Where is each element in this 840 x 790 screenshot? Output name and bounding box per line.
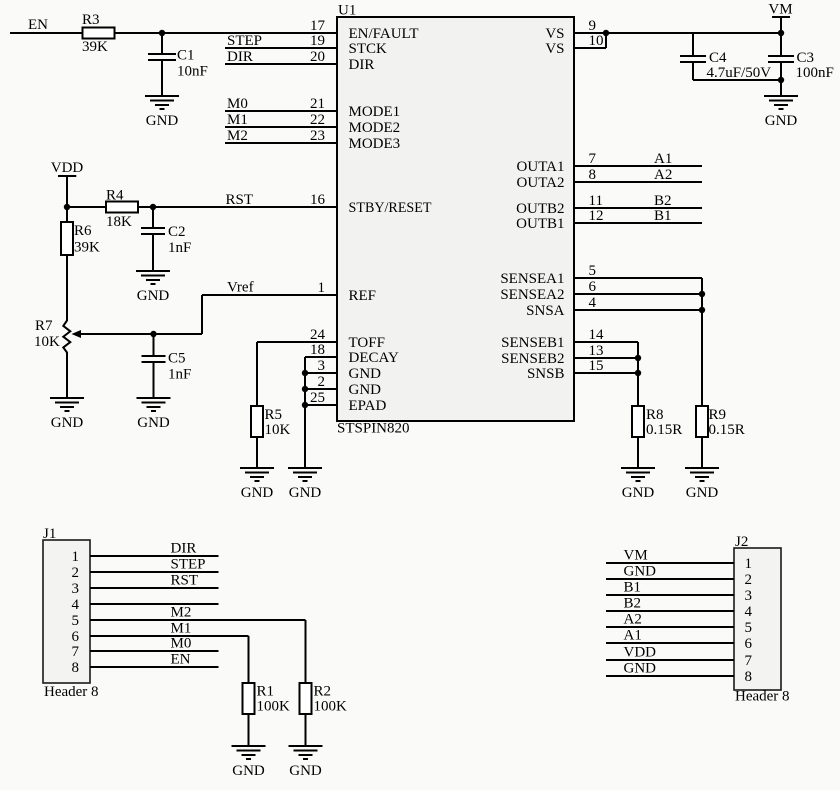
svg-text:R3: R3 — [82, 12, 100, 28]
node EN label — [28, 17, 48, 33]
svg-text:VM: VM — [768, 1, 792, 17]
svg-text:6: 6 — [72, 629, 80, 645]
svg-text:C5: C5 — [168, 351, 186, 367]
svg-text:7: 7 — [589, 151, 597, 167]
svg-text:9: 9 — [589, 18, 597, 34]
svg-text:J2: J2 — [735, 534, 748, 550]
wire SNSB — [574, 372, 638, 374]
svg-text:M0: M0 — [171, 636, 192, 652]
svg-text:STSPIN820: STSPIN820 — [337, 421, 410, 437]
resistor R5 — [251, 406, 291, 438]
svg-text:39K: 39K — [74, 240, 100, 256]
svg-text:Header 8: Header 8 — [44, 684, 99, 700]
svg-text:GND: GND — [686, 485, 719, 501]
svg-text:DECAY: DECAY — [349, 350, 399, 366]
svg-text:10nF: 10nF — [177, 64, 208, 80]
wire DIR net — [225, 49, 337, 65]
wire R7 to ground — [66, 352, 68, 398]
svg-text:B1: B1 — [624, 580, 642, 596]
wire C4 bottom — [693, 62, 781, 80]
wire J1 pin 6 M1 — [90, 621, 249, 684]
svg-text:STEP: STEP — [171, 557, 206, 573]
wire U1 GND pin 2 — [305, 388, 337, 390]
svg-text:U1: U1 — [338, 3, 356, 19]
svg-text:2: 2 — [72, 565, 80, 581]
wire R1 to ground — [248, 714, 250, 746]
wire EN to R3 — [10, 32, 83, 34]
junction SNSB — [635, 370, 641, 376]
junction SENSEB2 — [635, 355, 641, 361]
svg-text:1nF: 1nF — [168, 367, 191, 383]
junction SNSA — [699, 307, 705, 313]
svg-text:3: 3 — [745, 588, 753, 604]
wire R6 to R7 — [66, 255, 68, 321]
svg-text:RST: RST — [171, 573, 199, 589]
wire STEP net — [225, 33, 337, 49]
wire VDD node to R6 — [66, 207, 68, 222]
svg-text:M1: M1 — [227, 112, 248, 128]
svg-text:M0: M0 — [227, 96, 248, 112]
svg-text:100K: 100K — [314, 699, 348, 715]
svg-text:OUTA1: OUTA1 — [517, 159, 565, 175]
svg-text:10: 10 — [589, 33, 604, 49]
svg-text:A2: A2 — [654, 167, 672, 183]
svg-text:1: 1 — [72, 549, 80, 565]
svg-text:OUTA2: OUTA2 — [517, 175, 565, 191]
svg-text:GND: GND — [232, 763, 265, 779]
wire J1 pin 4 — [90, 603, 219, 605]
resistor R1 — [243, 683, 291, 715]
svg-text:A1: A1 — [654, 151, 672, 167]
capacitor C3 — [768, 50, 834, 81]
svg-text:R1: R1 — [257, 684, 275, 700]
U1 left pin numbers — [310, 18, 326, 406]
svg-text:GND: GND — [289, 485, 322, 501]
ground below R1 — [232, 746, 266, 779]
svg-text:7: 7 — [745, 653, 753, 669]
connector J2 body — [734, 534, 790, 705]
svg-text:100nF: 100nF — [796, 65, 834, 81]
svg-text:GND: GND — [624, 661, 657, 677]
junction pin 3 — [302, 370, 308, 376]
wire VS to VM — [606, 32, 781, 34]
U1 right pin numbers — [589, 18, 605, 374]
wire U1 TOFF to R5 — [257, 342, 337, 406]
svg-text:C3: C3 — [797, 50, 815, 66]
svg-text:DIR: DIR — [227, 49, 253, 65]
svg-text:4: 4 — [589, 295, 597, 311]
svg-text:STBY/RESET: STBY/RESET — [349, 200, 432, 216]
wire J2 pin 4 B2 — [606, 596, 734, 612]
capacitor C2 — [141, 224, 191, 256]
junction pin 2 — [302, 386, 308, 392]
wire J1 pin 8 EN — [90, 652, 219, 668]
svg-text:20: 20 — [310, 49, 325, 65]
svg-text:SENSEA1: SENSEA1 — [500, 271, 564, 287]
svg-text:EN: EN — [171, 652, 191, 668]
svg-text:8: 8 — [72, 660, 80, 676]
svg-text:R9: R9 — [709, 407, 727, 423]
svg-text:39K: 39K — [82, 39, 108, 55]
J2 pin numbers — [745, 556, 753, 685]
svg-text:18: 18 — [310, 342, 325, 358]
wire junction to C1 — [161, 33, 163, 54]
svg-text:0.15R: 0.15R — [646, 422, 682, 438]
svg-text:GND: GND — [622, 485, 655, 501]
svg-text:100K: 100K — [257, 699, 291, 715]
wire J2 pin 6 A1 — [606, 628, 734, 644]
junction VS — [603, 30, 609, 36]
junction at C1 tap — [159, 30, 165, 36]
wire SENSEB1 — [574, 342, 638, 406]
svg-text:REF: REF — [349, 288, 377, 304]
svg-text:15: 15 — [589, 358, 604, 374]
svg-text:R7: R7 — [35, 318, 53, 334]
wire J1 pin 1 DIR — [90, 541, 219, 557]
svg-text:5: 5 — [72, 613, 80, 629]
U1 right pin names — [500, 26, 564, 382]
wire VDD to R4 — [67, 206, 106, 208]
wire U1 EPAD pin 25 — [305, 404, 337, 406]
resistor R3 — [82, 12, 115, 55]
op-amp U1 STSPIN820 body — [337, 3, 574, 437]
wire J2 pin 2 GND — [606, 564, 734, 580]
svg-text:GND: GND — [137, 288, 170, 304]
wire OUTA1 net A1 — [574, 151, 702, 167]
svg-text:R4: R4 — [106, 188, 124, 204]
wire VM node to C4 — [692, 33, 694, 56]
svg-text:A2: A2 — [624, 612, 642, 628]
wire C1 to ground — [161, 60, 163, 96]
svg-text:M2: M2 — [227, 128, 248, 144]
wire SENSEB2 — [574, 357, 638, 359]
wire J1 pin 3 RST — [90, 573, 219, 589]
svg-text:M1: M1 — [171, 621, 192, 637]
svg-text:EPAD: EPAD — [349, 398, 387, 414]
svg-text:C2: C2 — [168, 224, 186, 240]
svg-text:GND: GND — [137, 415, 170, 431]
junction SENSEA2 — [699, 291, 705, 297]
svg-text:2: 2 — [318, 374, 326, 390]
svg-text:MODE2: MODE2 — [349, 120, 401, 136]
svg-text:R2: R2 — [314, 684, 332, 700]
ground below R9 — [685, 468, 719, 501]
node Vref label — [227, 280, 254, 296]
svg-text:GND: GND — [289, 763, 322, 779]
wire OUTB1 net B1 — [574, 208, 702, 224]
svg-text:SNSB: SNSB — [527, 366, 565, 382]
svg-text:25: 25 — [310, 390, 325, 406]
svg-text:GND: GND — [624, 564, 657, 580]
svg-text:GND: GND — [765, 113, 798, 129]
wire R7 wiper to Vref — [79, 333, 202, 335]
wire M1 net — [225, 112, 337, 128]
svg-text:Vref: Vref — [227, 280, 254, 296]
U1 left pin names — [349, 26, 432, 414]
resistor R2 — [300, 683, 348, 715]
svg-text:13: 13 — [589, 343, 604, 359]
svg-text:23: 23 — [310, 128, 325, 144]
svg-text:OUTB1: OUTB1 — [516, 216, 564, 232]
svg-text:1: 1 — [745, 556, 753, 572]
junction at C2 tap — [150, 204, 156, 210]
resistor R8 — [632, 406, 682, 438]
wire junction to C2 — [152, 207, 154, 228]
svg-text:SENSEB2: SENSEB2 — [501, 351, 564, 367]
svg-text:M2: M2 — [171, 605, 192, 621]
svg-text:GND: GND — [146, 113, 179, 129]
ground below R5 — [240, 468, 274, 501]
ground below R8 — [621, 468, 655, 501]
power VM symbol — [768, 1, 792, 33]
svg-text:STCK: STCK — [349, 41, 388, 57]
wire J2 pin 5 A2 — [606, 612, 734, 628]
wire R9 to ground — [701, 437, 703, 468]
svg-text:A1: A1 — [624, 628, 642, 644]
svg-text:22: 22 — [310, 112, 325, 128]
svg-text:4.7uF/50V: 4.7uF/50V — [707, 65, 772, 81]
svg-text:OUTB2: OUTB2 — [516, 201, 564, 217]
svg-text:B2: B2 — [654, 193, 672, 209]
resistor R9 — [696, 406, 745, 438]
svg-text:C1: C1 — [177, 48, 195, 64]
svg-text:SNSA: SNSA — [526, 303, 565, 319]
junction VDD node — [64, 204, 70, 210]
wire J2 pin 3 B1 — [606, 580, 734, 596]
wire OUTA2 net A2 — [574, 167, 702, 183]
wire OUTB2 net B2 — [574, 193, 702, 209]
wire J1 pin 5 M2 — [90, 605, 306, 684]
wire SENSEA1 — [574, 278, 702, 406]
svg-text:7: 7 — [72, 644, 80, 660]
svg-text:10K: 10K — [265, 422, 291, 438]
wire R2 to ground — [305, 714, 307, 746]
ground below DECAY chain — [288, 468, 322, 501]
potentiometer R7 — [34, 318, 81, 353]
svg-text:GND: GND — [349, 366, 382, 382]
wire U1 GND pin 3 — [305, 372, 337, 374]
svg-text:GND: GND — [241, 485, 274, 501]
svg-text:24: 24 — [310, 327, 326, 343]
wire R5 to ground — [256, 437, 258, 468]
svg-text:R5: R5 — [265, 407, 283, 423]
ground below C1 — [145, 96, 179, 129]
svg-text:16: 16 — [310, 192, 326, 208]
wire Vref riser — [202, 295, 337, 334]
wire SNSA — [574, 309, 702, 311]
svg-text:1nF: 1nF — [168, 240, 191, 256]
wire VS pin 9 — [574, 32, 606, 34]
svg-text:4: 4 — [745, 604, 753, 620]
svg-text:12: 12 — [589, 208, 604, 224]
svg-text:SENSEA2: SENSEA2 — [500, 287, 564, 303]
svg-text:6: 6 — [589, 279, 597, 295]
ground below C2 — [136, 271, 170, 304]
capacitor C4 — [680, 50, 771, 81]
wire junction to C5 — [153, 334, 155, 356]
svg-text:DIR: DIR — [171, 541, 197, 557]
svg-text:R6: R6 — [74, 223, 92, 239]
J1 pin numbers — [72, 549, 80, 676]
svg-text:TOFF: TOFF — [349, 335, 385, 351]
svg-text:0.15R: 0.15R — [709, 422, 745, 438]
svg-text:EN/FAULT: EN/FAULT — [349, 26, 419, 42]
svg-text:19: 19 — [310, 33, 325, 49]
svg-text:MODE1: MODE1 — [349, 104, 401, 120]
svg-text:18K: 18K — [106, 214, 132, 230]
svg-text:MODE3: MODE3 — [349, 136, 401, 152]
svg-text:5: 5 — [745, 620, 753, 636]
junction at C5 tap — [150, 331, 156, 337]
svg-text:B1: B1 — [654, 208, 672, 224]
power VDD symbol — [51, 160, 84, 207]
svg-text:J1: J1 — [43, 526, 56, 542]
svg-text:RST: RST — [226, 192, 254, 208]
junction C4-C3 bottom — [778, 77, 784, 83]
svg-text:4: 4 — [72, 597, 80, 613]
wire J1 pin 2 STEP — [90, 557, 219, 573]
capacitor C1 — [148, 48, 208, 80]
wire C3 to ground — [780, 62, 782, 96]
svg-text:VDD: VDD — [624, 645, 657, 661]
svg-text:3: 3 — [318, 358, 326, 374]
svg-text:STEP: STEP — [227, 33, 262, 49]
svg-text:EN: EN — [28, 17, 48, 33]
svg-text:VS: VS — [545, 26, 564, 42]
wire VM node to C3 — [780, 33, 782, 56]
svg-text:6: 6 — [745, 636, 753, 652]
svg-text:Header 8: Header 8 — [735, 689, 790, 705]
wire M2 net — [225, 128, 337, 144]
svg-text:VM: VM — [624, 548, 648, 564]
svg-text:8: 8 — [589, 167, 597, 183]
svg-text:SENSEB1: SENSEB1 — [501, 335, 564, 351]
svg-text:DIR: DIR — [349, 57, 375, 73]
junction VM node — [778, 30, 784, 36]
svg-text:1: 1 — [318, 280, 326, 296]
wire R3 to U1 pin 17 — [115, 32, 338, 34]
junction pin 25 — [302, 402, 308, 408]
ground below R7 — [50, 398, 84, 431]
svg-text:21: 21 — [310, 96, 325, 112]
svg-text:R8: R8 — [646, 407, 664, 423]
capacitor C5 — [142, 351, 192, 383]
svg-text:2: 2 — [745, 572, 753, 588]
wire J1 pin 7 M0 — [90, 636, 219, 652]
ground below R2 — [289, 746, 323, 779]
resistor R6 — [61, 222, 100, 256]
svg-text:GND: GND — [51, 415, 84, 431]
svg-text:VS: VS — [545, 41, 564, 57]
ground below C3 — [764, 96, 798, 129]
svg-text:5: 5 — [589, 263, 597, 279]
resistor R4 — [106, 188, 138, 231]
svg-text:VDD: VDD — [51, 160, 84, 176]
svg-text:8: 8 — [745, 669, 753, 685]
svg-text:11: 11 — [589, 193, 603, 209]
svg-text:10K: 10K — [34, 334, 60, 350]
svg-text:17: 17 — [310, 18, 326, 34]
wire C2 to ground — [152, 234, 154, 271]
ground below C5 — [137, 398, 171, 431]
wire J2 pin 1 VM — [606, 548, 734, 564]
wire R8 to ground — [637, 437, 639, 468]
connector J1 body — [43, 526, 99, 700]
wire M0 net — [225, 96, 337, 112]
wire SENSEA2 — [574, 293, 702, 295]
svg-text:14: 14 — [589, 327, 605, 343]
wire VS pin 10 — [574, 33, 606, 48]
wire DECAY chain — [305, 357, 337, 468]
svg-text:B2: B2 — [624, 596, 642, 612]
wire C5 to ground — [153, 362, 155, 398]
wire J2 pin 8 GND — [606, 661, 734, 677]
svg-text:GND: GND — [349, 382, 382, 398]
wire J2 pin 7 VDD — [606, 645, 734, 661]
svg-text:3: 3 — [72, 581, 80, 597]
svg-text:C4: C4 — [709, 50, 727, 66]
wire R4 to U1 pin 16 RST — [138, 192, 337, 208]
